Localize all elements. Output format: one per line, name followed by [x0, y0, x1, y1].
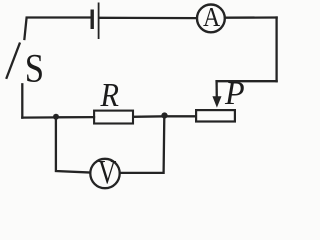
junction dot left [53, 114, 59, 120]
battery thin plate (positive) [98, 3, 100, 40]
wire resistor to left junction [56, 116, 94, 119]
wire top left segment [24, 18, 90, 40]
resistor R box [94, 111, 133, 124]
junction dot right [161, 112, 167, 118]
wire battery to ammeter [100, 17, 197, 20]
svg-text:S: S [25, 47, 44, 91]
battery thick plate (negative) [90, 10, 93, 30]
rheostat P box [196, 110, 235, 121]
wire right junction to resistor [134, 115, 165, 118]
ammeter circle [197, 5, 225, 33]
wire wiper lead horizontal [217, 80, 277, 82]
wire voltmeter to bottom-right corner [120, 116, 164, 173]
svg-text:A: A [203, 1, 221, 32]
wire voltmeter branch left vertical [56, 117, 90, 172]
wire ammeter to top-right corner [226, 16, 277, 19]
wire left vertical lower [21, 84, 23, 117]
wiper arrow shaft [215, 81, 217, 99]
wiper arrowhead [212, 96, 221, 107]
wire left junction to bottom-left corner [22, 116, 56, 118]
svg-text:V: V [98, 155, 117, 191]
svg-text:R: R [100, 77, 119, 114]
wire rheostat to right junction [164, 115, 195, 117]
svg-text:P: P [224, 75, 245, 112]
voltmeter circle [90, 159, 119, 188]
wire right vertical [275, 18, 277, 82]
switch S blade [7, 44, 20, 78]
